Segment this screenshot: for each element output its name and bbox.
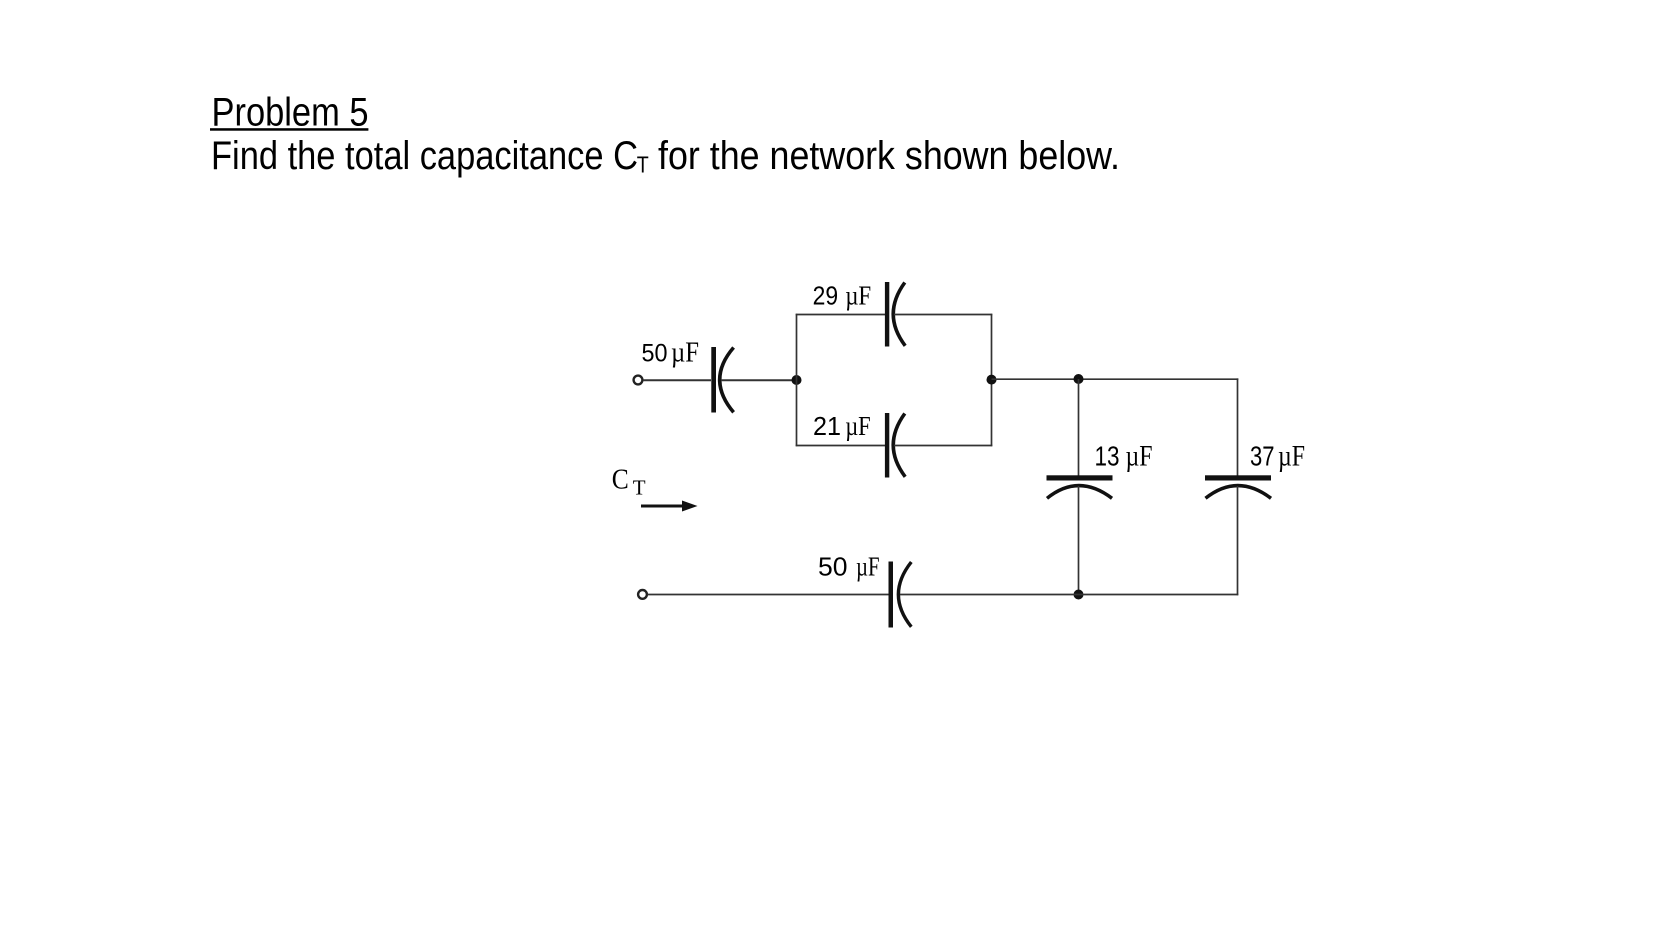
capacitor C2 29uF straight plate [885,282,889,347]
wire: node N2 to right corner [992,378,1239,380]
capacitor C2 29uF curved plate [893,283,905,346]
terminal T2 (bottom input, open circle) [638,590,647,599]
svg-text:C: C [612,464,629,496]
wire: N3 down to C4 top plate [1078,379,1080,476]
node N4 (junction dot, bottom of 13uF branch) [1074,590,1084,600]
node N1 (junction dot) [792,375,802,385]
wire: C5 bottom to bottom rail corner [1237,486,1239,595]
title underline [210,128,368,131]
capacitor C1 50uF curved plate [720,348,734,413]
svg-text:13: 13 [1095,441,1120,472]
value label 29uF (C2) [813,280,872,311]
svg-text:Problem 5: Problem 5 [212,91,369,135]
wire: C1 to node N1 [721,379,797,381]
wire: left edge of parallel box [796,314,798,447]
value label 50uF (C1) [642,338,700,369]
capacitor C6 50uF curved plate [898,562,911,627]
wire: C6 to bottom-right corner [900,594,1238,596]
svg-text:µF: µF [845,410,871,441]
svg-text:T: T [633,476,646,500]
capacitor C4 13uF straight plate [1047,475,1113,480]
wire: top terminal to C1 left plate [643,379,711,381]
label CT (total capacitance) [612,464,646,500]
value label 21uF (C3) [813,410,871,441]
svg-text:µF: µF [845,280,871,311]
capacitor C1 50uF straight plate [711,347,716,413]
arrow for CT [641,501,698,512]
node N2 (junction dot) [987,375,997,385]
svg-text:µF: µF [856,551,880,582]
wire: top branch left segment [796,314,885,316]
svg-text:T: T [637,152,649,178]
wire: bottom terminal to C6 left plate [648,594,890,596]
value label 13uF (C4) [1095,441,1153,473]
svg-text:50: 50 [818,552,848,582]
svg-text:50: 50 [642,340,668,368]
node N3 (junction dot, top of 13uF branch) [1074,374,1084,384]
wire: top branch right segment [894,314,992,316]
svg-text:µF: µF [1278,441,1305,473]
svg-text:Find the total capacitance C: Find the total capacitance C [211,134,638,178]
capacitor C6 50uF straight plate [889,562,894,628]
svg-text:29: 29 [813,283,839,311]
wire: bottom branch right segment [894,445,992,447]
svg-text:µF: µF [1126,441,1153,473]
value label 50uF (C6) [818,551,880,582]
wire: right edge down to C5 top plate [1237,378,1239,476]
capacitor C5 37uF straight plate [1205,475,1271,480]
value label 37uF (C5) [1250,441,1305,473]
capacitor C4 13uF curved plate [1047,486,1112,499]
svg-text:37: 37 [1250,441,1275,472]
capacitor C3 21uF curved plate [893,414,905,477]
wire: right edge of parallel box [991,314,993,447]
svg-text:µF: µF [671,338,699,369]
wire: C4 bottom to node N4 [1078,486,1080,595]
svg-text:for the network shown below.: for the network shown below. [658,134,1120,178]
capacitor C5 37uF curved plate [1206,486,1272,499]
wire: bottom branch left segment [796,445,885,447]
terminal T1 (top input, open circle) [634,376,643,385]
capacitor C3 21uF straight plate [885,413,889,478]
svg-text:21: 21 [813,413,841,441]
